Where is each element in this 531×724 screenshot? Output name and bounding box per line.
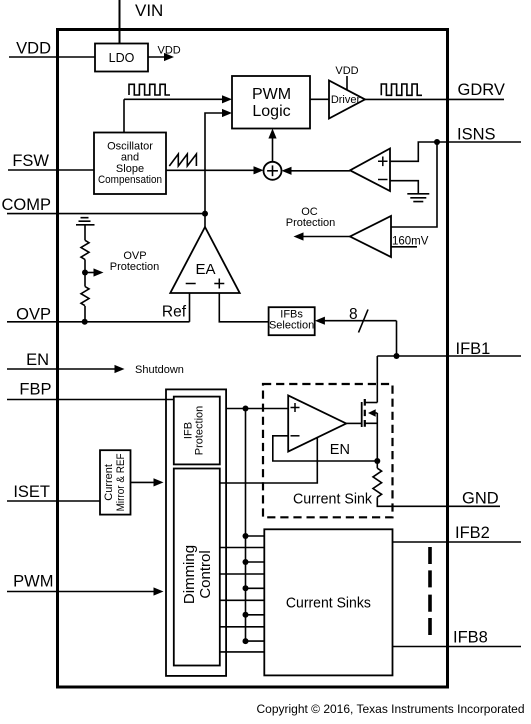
- svg-text:GDRV: GDRV: [458, 81, 505, 99]
- op-amp EA error amplifier (points up): [170, 227, 239, 293]
- svg-text:EN: EN: [330, 442, 350, 458]
- svg-text:Dimming: Dimming: [181, 545, 198, 604]
- pin EN line with shutdown arrow: [7, 368, 115, 370]
- pin IFB8 line: [393, 646, 522, 648]
- IFB Protection block: [174, 397, 220, 465]
- svg-text:OVP: OVP: [16, 306, 51, 324]
- PWM Logic block: [232, 76, 310, 129]
- svg-text:160mV: 160mV: [392, 235, 429, 247]
- wire EA plus input to IFBs Selection: [219, 293, 268, 322]
- wire EN enable into sink op-amp: [220, 438, 317, 483]
- pin FBP line: [7, 399, 174, 401]
- wire EA output up to PWM Logic: [205, 113, 223, 227]
- svg-text:FSW: FSW: [12, 152, 49, 170]
- pin OVP line: [7, 321, 190, 323]
- svg-text:EN: EN: [26, 351, 49, 369]
- resistor OVP upper: [81, 240, 89, 259]
- svg-text:EA: EA: [195, 261, 215, 278]
- sawtooth ramp symbol: [169, 154, 196, 166]
- svg-text:ISET: ISET: [13, 483, 50, 501]
- main device border: [58, 30, 448, 688]
- wire ISNS to OC comparator input: [391, 142, 437, 227]
- svg-text:Control: Control: [197, 550, 214, 598]
- svg-text:Copyright © 2016, Texas Instru: Copyright © 2016, Texas Instruments Inco…: [257, 702, 525, 716]
- wire divider bottom: [84, 306, 86, 322]
- ground (top of OVP divider): [76, 218, 95, 225]
- wire EA minus input to OVP/Ref node: [189, 293, 191, 322]
- svg-text:COMP: COMP: [2, 196, 52, 214]
- Current Sinks block: [264, 529, 392, 675]
- IFB block outer box: [166, 389, 226, 676]
- op-amp U-sink (points right): [288, 395, 346, 451]
- Dimming Control block: [174, 469, 220, 666]
- square wave symbol (oscillator clock): [129, 84, 170, 95]
- wire summing node to PWM Logic bottom: [272, 137, 274, 162]
- wire OVP protection arrow: [85, 272, 94, 274]
- pin ISET line: [7, 500, 100, 502]
- pin VDD line (left): [9, 56, 95, 58]
- svg-text:IFB1: IFB1: [456, 340, 491, 358]
- pin ISNS line: [390, 142, 521, 161]
- svg-text:VDD: VDD: [16, 40, 51, 58]
- wire divider middle: [84, 260, 86, 287]
- node COMP junction dot: [202, 211, 208, 217]
- pin GDRV line: [365, 98, 504, 100]
- comparator current sense (points left): [350, 149, 390, 192]
- Current Mirror and REF block: [100, 450, 131, 514]
- wire OC protection output arrow: [303, 236, 350, 238]
- svg-text:LDO: LDO: [109, 51, 135, 65]
- svg-text:Ref: Ref: [162, 303, 187, 320]
- node ISNS junction dot: [434, 139, 440, 145]
- svg-text:Logic: Logic: [252, 103, 290, 120]
- svg-text:Driver: Driver: [331, 94, 361, 106]
- wire bus vertical to IFB1: [396, 321, 398, 356]
- wire comparator output to summing node: [291, 170, 350, 172]
- ground: [407, 194, 429, 202]
- current sink dashed box: [263, 384, 393, 517]
- resistor OVP lower: [81, 287, 89, 306]
- svg-text:Shutdown: Shutdown: [135, 364, 184, 376]
- bus slash mark: [359, 310, 369, 333]
- Driver buffer triangle: [329, 81, 365, 119]
- wire VIN vertical into LDO: [119, 0, 121, 44]
- svg-text:Protection: Protection: [110, 261, 160, 273]
- comparator OC protection (points left): [350, 216, 391, 257]
- svg-text:OC: OC: [301, 206, 318, 218]
- square wave symbol (gate drive): [381, 84, 422, 95]
- wire 8-bit bus into IFBs Selection: [325, 320, 397, 322]
- svg-text:Current Sink: Current Sink: [293, 491, 373, 507]
- svg-text:Slope: Slope: [116, 163, 144, 175]
- wire VDD stub into Driver: [346, 76, 348, 90]
- node divider tap dot: [82, 270, 88, 276]
- pin GND line: [377, 497, 500, 506]
- svg-text:8: 8: [349, 306, 358, 323]
- wire VDD output arrow from LDO: [148, 56, 165, 58]
- svg-text:PWM: PWM: [13, 573, 53, 591]
- svg-text:VDD: VDD: [158, 45, 181, 57]
- wire IFB1 down to MOSFET drain: [376, 356, 378, 403]
- svg-text:PWM: PWM: [252, 86, 291, 103]
- svg-text:GND: GND: [462, 489, 499, 507]
- svg-text:Current Sinks: Current Sinks: [286, 596, 371, 612]
- svg-text:Compensation: Compensation: [98, 174, 162, 186]
- pin PWM line: [7, 591, 154, 593]
- svg-text:Protection: Protection: [286, 217, 336, 229]
- ellipsis dashes IFB3-IFB7: [428, 547, 432, 635]
- wire dimming control outputs: [220, 547, 264, 549]
- wire FBP to sink op-amp plus input: [226, 408, 288, 410]
- Oscillator and Slope Compensation block: [94, 133, 166, 195]
- pin IFB2 line: [393, 541, 522, 543]
- IFBs Selection block: [269, 307, 315, 335]
- svg-text:FBP: FBP: [19, 381, 51, 399]
- node bus dots and stubs to Current Sinks: [243, 533, 249, 539]
- wire oscillator ramp to summing node: [166, 169, 255, 171]
- svg-text:Current: Current: [103, 464, 115, 501]
- wire FBP bus vertical: [245, 409, 247, 642]
- wire PWM Logic to Driver: [310, 98, 329, 100]
- wire current mirror output arrow: [131, 481, 155, 483]
- resistor sink sense: [373, 468, 382, 497]
- svg-text:Mirror & REF: Mirror & REF: [115, 453, 127, 511]
- pin FSW line: [8, 169, 94, 171]
- svg-text:Selection: Selection: [269, 320, 314, 332]
- svg-text:Oscillator: Oscillator: [107, 140, 153, 152]
- wire 160mV reference stub: [391, 246, 417, 248]
- svg-text:ISNS: ISNS: [457, 126, 496, 144]
- svg-text:VIN: VIN: [135, 1, 163, 20]
- node IFB1 junction dot: [394, 353, 400, 359]
- svg-text:IFB2: IFB2: [455, 524, 490, 542]
- svg-text:IFB8: IFB8: [453, 629, 488, 647]
- LDO U-LDO box: [95, 44, 148, 72]
- wire sink op-amp feedback to source node: [273, 436, 378, 461]
- node source junction dot: [374, 458, 380, 464]
- pin IFB1 line: [377, 355, 521, 357]
- svg-text:and: and: [121, 152, 139, 164]
- svg-text:VDD: VDD: [335, 65, 358, 77]
- node OVP junction dot: [82, 319, 88, 325]
- svg-text:IFBs: IFBs: [280, 308, 303, 320]
- wire oscillator clock to PWM Logic: [124, 98, 223, 100]
- svg-text:Protection: Protection: [194, 406, 206, 456]
- transistor Q1 sink MOSFET: [346, 422, 362, 424]
- node FBP junction dot: [243, 406, 249, 412]
- pin COMP line: [7, 213, 205, 215]
- wire comparator minus input to ground: [390, 181, 418, 194]
- summing junction: [264, 162, 282, 180]
